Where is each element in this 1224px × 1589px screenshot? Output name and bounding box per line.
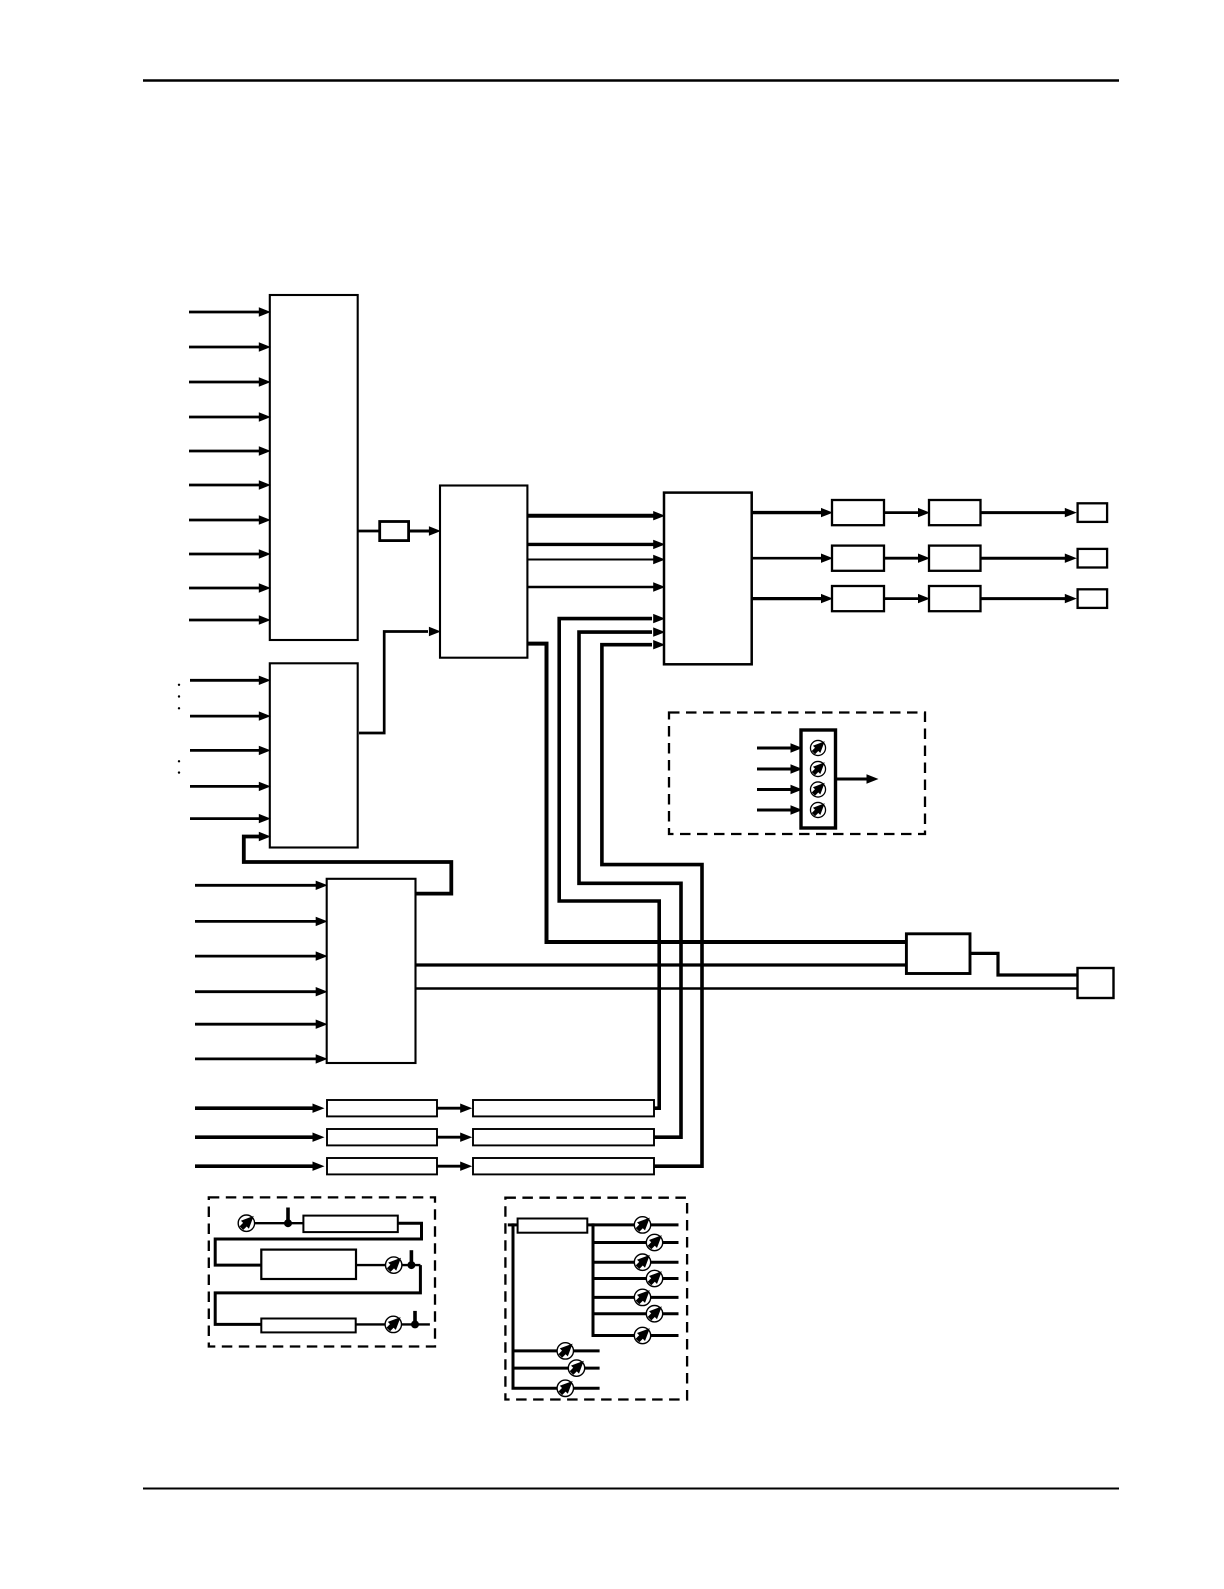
ladder left branch 1 [513,1349,600,1352]
wire U4 output 1 to buffer MB [416,963,907,966]
long arrow B2 to pad C2 [981,557,1067,560]
ladder left branch 2 [513,1367,600,1370]
input arrow row1 [195,1106,314,1110]
arrow D1a to D1b [437,1107,462,1110]
wire U2 to U3 elbow arrow [359,632,428,734]
bus arrow U3 to U5 line 3 [527,559,654,561]
serpentine wire row3 [356,1323,430,1325]
input arrow IND3 to U4 [195,955,317,958]
ladder top wire [508,1223,518,1226]
output pad FB [1078,968,1114,998]
divider box B3 [929,586,981,611]
bus arrow U3 to U5 line 1 [527,514,654,518]
top horizontal rule [143,79,1119,82]
input arrow IND5 to U4 [195,1023,317,1026]
pin stub TP1 [284,1219,292,1227]
input arrow row3 [195,1164,314,1168]
arrow D2a to D2b [437,1136,462,1139]
switch icon QL-SW1 [557,1343,573,1359]
arrow A1 to B1 [884,511,920,514]
pin stub TP2 [407,1261,415,1269]
input arrow IND1 to U4 [195,884,317,887]
input arrow IN8 to U1 [189,553,260,556]
element box P3 [261,1319,355,1333]
wire U1 to prescaler box [358,530,380,533]
block U4 lower register [327,879,416,1063]
switch icon Q-SW0 [634,1217,650,1233]
delay line box D3b [473,1158,654,1174]
arrow A3 to B3 [884,597,920,600]
switch icon SW3 [810,782,825,797]
switch icon P-SW1 [238,1215,254,1231]
switch icon QL-SW3 [557,1380,573,1396]
divider box A2 [832,546,884,571]
switch icon Q-SW2 [634,1254,650,1270]
long arrow B3 to pad C3 [981,597,1067,600]
divider box A1 [832,500,884,525]
mux output arrow [836,778,869,781]
divider box A3 [832,586,884,611]
input arrow IN9 to U1 [189,587,260,590]
input arrow IND6 to U4 [195,1058,317,1061]
buffer box MB [906,934,970,974]
delay box D1a [327,1100,437,1116]
mux input arrow M1-2 [757,768,792,771]
output pad C1 [1078,503,1108,522]
arrow U5 to divider box A1 [752,511,823,514]
input arrow IN5 to U1 [189,450,260,453]
feedback wire from U4 right edge to U2 bottom input [244,837,451,894]
ladder branch 6 [592,1334,679,1337]
input arrow IN10 to U1 [189,619,260,622]
input arrow IN3 to U1 [189,381,260,384]
ladder branch 2 [593,1261,679,1264]
serpentine wire row2 [356,1264,420,1266]
input arrow IN7 to U1 [189,519,260,522]
block U5 output divider [664,493,752,665]
element box Q1 [518,1219,588,1233]
input arrow INB5 to U2 [190,817,260,820]
switch icon SW2 [810,761,825,776]
ladder top wire right [587,1223,678,1226]
dashed enclosure DB3 [505,1198,687,1400]
mux input arrow M1-3 [757,788,792,791]
block U3 PLL core [440,486,527,658]
prescaler box SB1 [380,522,409,541]
arrow prescaler to U3 [409,530,431,533]
ellipsis dots group 1 [178,684,180,710]
bottom horizontal rule [143,1487,1119,1489]
block U2 second input register [270,663,358,847]
bus arrow U3 to U5 line 2 [527,543,654,546]
block U1 input register [270,295,358,640]
ladder right bus [592,1223,595,1335]
dashed enclosure DB1 [669,713,925,835]
serpentine wire row1 [255,1222,304,1224]
input arrow INB1 to U2 [190,679,260,682]
input arrow IN2 to U1 [189,346,260,349]
element box P1 [303,1216,397,1233]
input arrow IND4 to U4 [195,990,317,993]
input arrow row2 [195,1135,314,1139]
input arrow INB3 to U2 [190,749,260,752]
ladder left branch 3 [512,1387,600,1390]
switch icon Q-SW3 [646,1270,662,1286]
ladder branch 3 [593,1277,679,1280]
ladder branch 1 [593,1241,679,1244]
input arrow IND2 to U4 [195,920,317,923]
ladder branch 4 [593,1296,679,1299]
switch icon P-SW3 [385,1316,401,1332]
mux input arrow M1-1 [757,747,792,750]
switch icon SW1 [810,740,825,755]
mux input arrow M1-4 [757,809,792,812]
wire V2 riser to U5 input 6 [579,632,681,1137]
switch icon Q-SW4 [634,1289,650,1305]
switch icon SW4 [810,802,825,817]
switch icon P-SW2 [386,1257,402,1273]
input arrow IN6 to U1 [189,484,260,487]
delay box D2a [327,1129,437,1145]
delay line box D1b [473,1100,654,1116]
wire U3 output down to buffer MB [527,644,906,942]
arrow A2 to B2 [884,557,920,560]
arrow U5 to divider box A2 [752,557,823,560]
pin stub TP3 [411,1320,419,1328]
switch icon Q-SW5 [646,1306,662,1322]
ladder left bus [512,1223,515,1388]
output pad C3 [1078,589,1108,608]
arrow U5 to divider box A3 [752,597,823,600]
switch icon Q-SW6 [634,1327,650,1343]
serpentine wire link2 [215,1265,420,1324]
input arrow IN4 to U1 [189,416,260,419]
serpentine wire link1 [215,1223,421,1265]
wire V3 riser to U5 input 7 [602,645,702,1166]
input arrow INB4 to U2 [190,785,260,788]
input arrow INB2 to U2 [190,715,260,718]
wire U4 output 2 to pad FB [416,987,1078,989]
wire V1 riser to U5 input 5 [559,619,659,1109]
element box P2 [261,1250,356,1279]
delay line box D2b [473,1129,654,1145]
wire MB to pad FB [970,953,1078,975]
divider box B2 [929,546,981,571]
arrow D3a to D3b [437,1165,462,1168]
output pad C2 [1078,549,1108,568]
switch icon Q-SW1 [646,1234,662,1250]
mux switch box M1 [801,730,836,828]
input arrow IN1 to U1 [189,311,260,314]
delay box D3a [327,1158,437,1174]
bus arrow U3 to U5 line 4 [527,586,654,589]
divider box B1 [929,500,981,525]
long arrow B1 to pad C1 [981,511,1067,514]
ellipsis dots group 2 [178,760,180,774]
switch icon QL-SW2 [568,1360,584,1376]
dashed enclosure DB2 [209,1197,435,1346]
ladder branch 5 [593,1312,679,1315]
